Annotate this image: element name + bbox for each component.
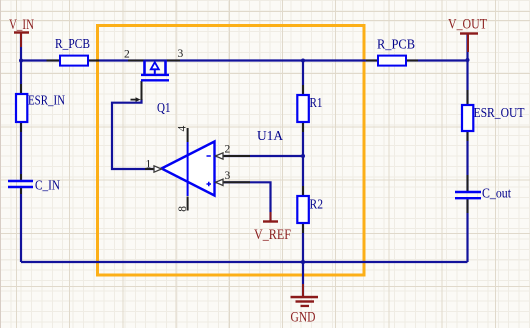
wire left vertical input branch [20,61,22,263]
pin ESR_IN pins [20,84,22,132]
power port V_OUT [448,17,487,52]
open arrowhead pin2 [216,153,224,159]
svg-text:ESR_OUT: ESR_OUT [474,106,525,121]
wire op-amp non-inverting input to V_REF [215,182,271,221]
svg-text:V_REF: V_REF [254,227,291,243]
pin left R_PCB pin1 [47,60,61,62]
resistor ESR_IN [16,94,65,123]
svg-text:2: 2 [225,144,231,156]
pin U1A pin1 output [145,168,155,170]
svg-text:3: 3 [178,48,184,60]
svg-text:2: 2 [124,49,130,61]
pin U1A pin3 [223,181,251,183]
wire feedback divider branch R1 R2 [302,61,304,263]
node junction ground rail [301,260,305,264]
pin Q1 pin3 [167,60,180,62]
open arrowhead pin3 [216,179,224,185]
svg-text:R1: R1 [310,96,323,111]
svg-text:Q1: Q1 [157,101,171,116]
svg-text:V_IN: V_IN [9,17,34,33]
wire op-amp output to Q1 gate [112,99,161,169]
svg-text:C_IN: C_IN [35,179,60,194]
svg-text:8: 8 [177,206,189,212]
resistor R1 [297,95,322,122]
resistor ESR_OUT [462,105,525,131]
resistor R_PCB left [55,37,90,66]
power port GND [291,284,319,326]
svg-text:3: 3 [225,170,231,182]
svg-text:V_OUT: V_OUT [448,17,487,33]
node junction V_IN rail left [19,59,23,63]
svg-text:R_PCB: R_PCB [55,37,90,52]
power port V_REF [254,212,291,243]
node junction V_OUT [466,58,470,62]
wire V_IN stub [20,33,22,61]
orange group box [98,26,365,276]
pin ESR_OUT pins [467,90,469,141]
pin R2 pins [302,186,304,233]
op-amp U1A [146,126,284,212]
pin U1A pin4 power stub [187,128,189,142]
wire op-amp inverting input to divider [215,155,303,157]
pin left R_PCB pin2 [88,60,99,62]
svg-text:R_PCB: R_PCB [377,38,415,53]
pin U1A pin2 [223,155,251,157]
sheet left edge [0,0,1,328]
transistor Q1 PMOS [124,48,184,116]
wire bottom rail [21,261,468,263]
svg-text:R2: R2 [310,198,324,213]
wire GND stub [302,262,304,296]
pin C_IN pins [20,174,22,194]
svg-text:U1A: U1A [257,129,284,144]
pin direction arrow at Q1 gate [131,99,137,101]
pin Q1 pin2 [128,60,144,62]
node junction divider top [301,59,305,63]
power port V_IN [9,17,34,47]
capacitor C_out [455,186,511,201]
pin Q1 gate pin1 [141,81,143,100]
svg-text:4: 4 [176,126,188,132]
node junction feedback tap [301,154,305,158]
pin right R_PCB pin2 [406,60,418,62]
pin C_out pins [467,175,469,213]
svg-text:C_out: C_out [482,186,511,201]
resistor R_PCB right [377,38,415,66]
pin U1A pin8 power stub [187,197,189,211]
wire top rail V_IN to V_OUT [21,59,468,61]
open arrowhead pin1 [154,166,162,172]
svg-text:1: 1 [146,159,152,171]
svg-text:GND: GND [291,310,316,326]
resistor R2 [297,196,323,223]
svg-text:ESR_IN: ESR_IN [28,94,65,109]
pin right R_PCB pin1 [366,60,378,62]
pin R1 pins [302,85,304,132]
capacitor C_IN [8,179,60,194]
wire right vertical output branch [466,34,468,262]
